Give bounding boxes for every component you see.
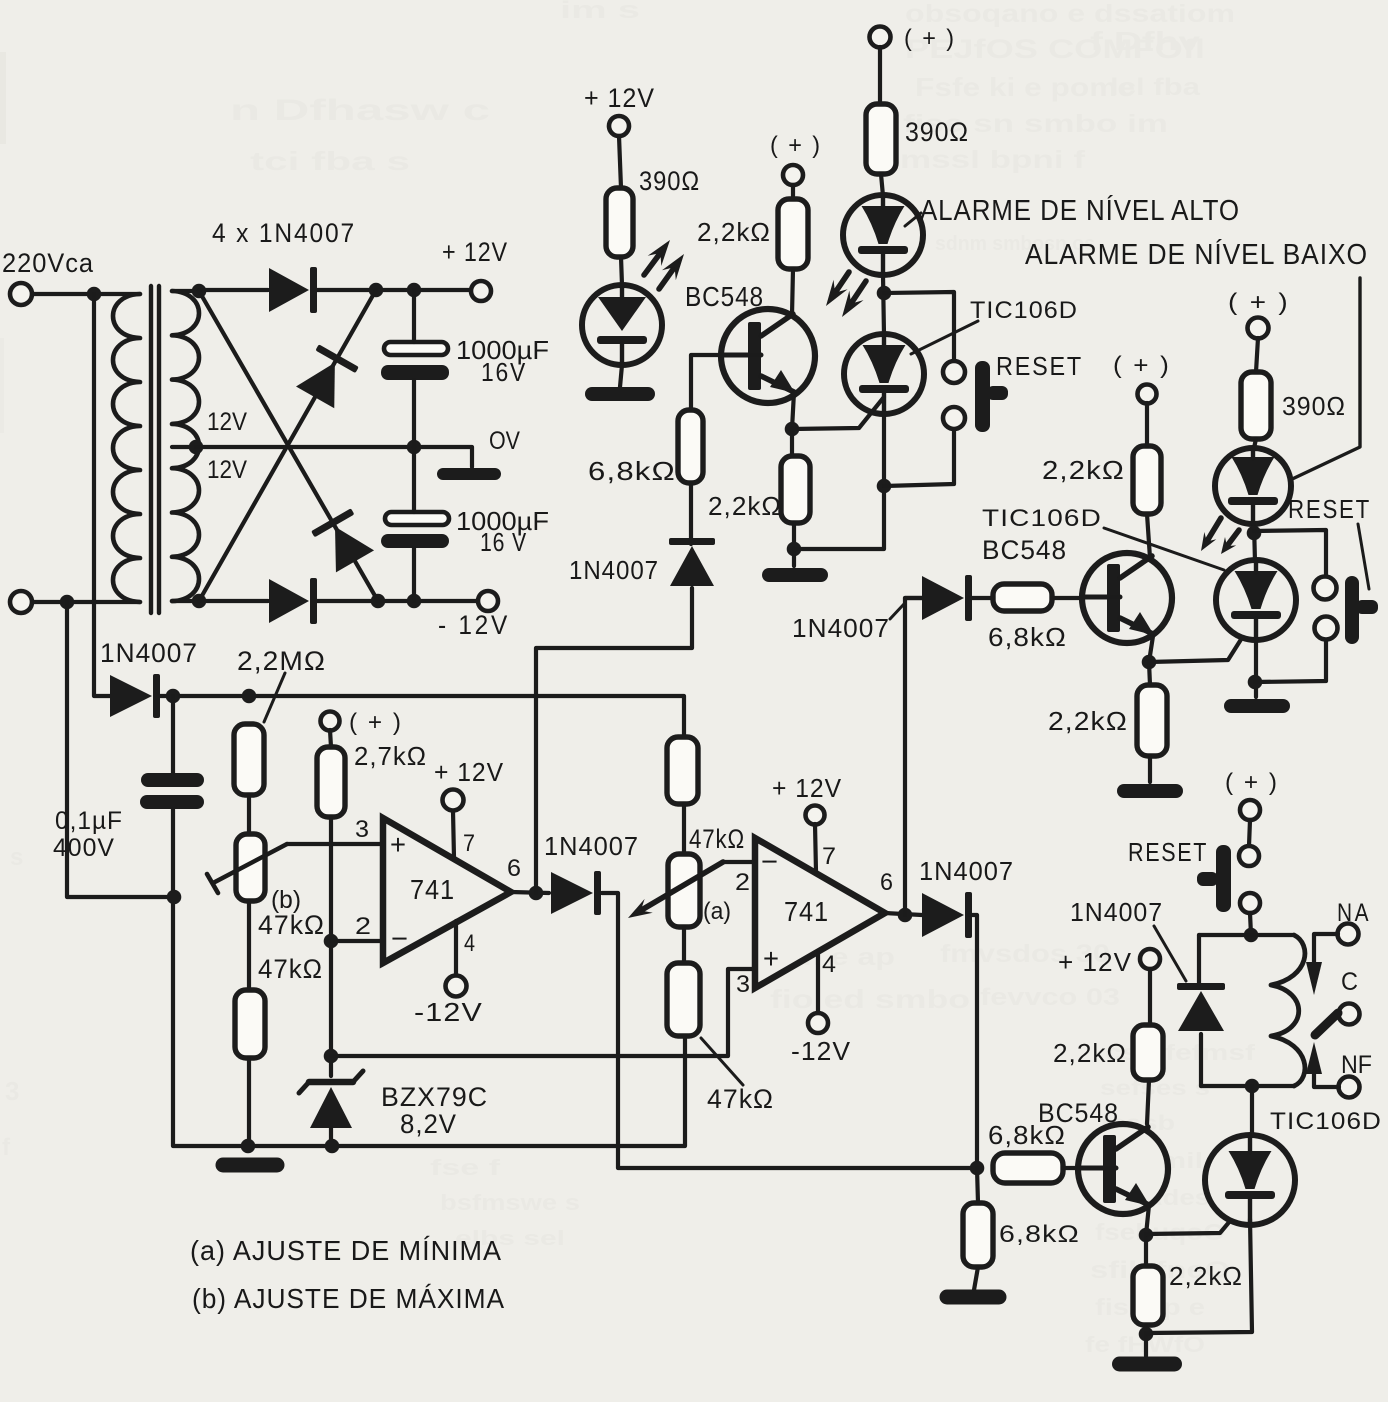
wire NF to moving contact [1306,1042,1339,1087]
LED LED2 high alarm [843,195,923,275]
wire SCR2 cathode [1254,640,1258,697]
node (+) terminal LED3 [1248,318,1269,339]
wire Z1 anode to ground rail [329,1128,333,1146]
node (+) terminal above R3 [321,712,340,731]
node relay NA terminal [1338,924,1359,945]
junction LED3 cathode node [1247,526,1262,541]
junction reference node [324,1049,339,1064]
svg-text:−: − [391,923,408,954]
ground Q2 emitter [1117,784,1183,798]
svg-text:2,2kΩ: 2,2kΩ [1169,1261,1243,1291]
node +12V terminal Q3 [1140,949,1160,969]
label Q2 BC548 [982,535,1067,565]
wire SCR2 cathode to RESET2 bottom [1255,640,1326,682]
resistor R16 6.8k Q3 base [993,1153,1063,1183]
node (+) terminal Q1 collector [783,165,803,185]
svg-text:mssl bpni f: mssl bpni f [900,146,1086,174]
node 220Vca input terminal top [10,283,32,305]
wire R2 to ground rail [247,1058,251,1146]
svg-text:12V: 12V [207,408,247,436]
svg-text:3: 3 [736,971,750,998]
wire R1 label leader [264,673,285,722]
label R2 47k [258,954,323,984]
svg-text:BC548: BC548 [1038,1098,1119,1128]
label (a) [703,898,731,925]
wire RESET3 bottom to relay rail [1250,913,1251,935]
svg-text:6: 6 [880,869,893,896]
svg-text:+ 12V: + 12V [1058,947,1132,977]
label legend b [192,1283,505,1314]
label R8 6,8k [588,456,676,486]
label U2 -12V [791,1036,851,1066]
wire SCR1 gate from Q1 emitter [792,397,884,429]
wire R1 to pot [247,795,251,834]
node (+) terminal Q2 collector [1138,385,1157,404]
label U2 +12V [772,773,842,803]
svg-text:lcl fba: lcl fba [1110,74,1201,101]
thyristor SCR3 TIC106D [1205,1135,1295,1225]
wire R15 to ground [974,1267,978,1290]
node +12V terminal LED1 [609,116,629,136]
wire +12V rail [199,288,471,292]
label U2 plus input [763,943,779,974]
wire R3 top lead [330,730,331,747]
wire R13 to ground [1148,756,1152,782]
thyristor SCR2 TIC106D [1216,560,1296,640]
wire Q3 emitter node to R18 [1144,1235,1148,1266]
label Z1 BZX79C [381,1082,488,1112]
relay C moving arm [1315,1013,1338,1035]
svg-text:-12V: -12V [414,997,483,1027]
svg-text:im s: im s [560,0,640,24]
label R7 2,2k [697,217,771,247]
junction ground rail at R2 [241,1139,256,1154]
switch RESET1 actuator [975,361,1008,432]
node U2 +12V terminal [806,806,825,825]
switch RESET3 top contact [1239,846,1259,866]
svg-text:( + ): ( + ) [770,132,822,159]
resistor R8 6.8k Q1 base [678,410,703,483]
svg-text:2: 2 [355,913,371,940]
svg-text:1N4007: 1N4007 [544,831,639,861]
wire R18 to ground node [1144,1325,1148,1334]
junction 0V rail [407,440,422,455]
junction secondary bottom [192,594,207,609]
wire R7 to Q1 collector [792,269,793,315]
label SCR3 TIC106D [1270,1108,1382,1135]
label R5 47k leader [701,1038,743,1085]
resistor R3 2.7k [317,747,345,817]
label R12 2,2k [1042,455,1125,485]
svg-text:390Ω: 390Ω [905,117,969,147]
op-amp U2 741 triangle [755,838,885,988]
node relay NF terminal [1339,1077,1360,1098]
wire U1 pin7 [453,811,454,858]
junction SCR2 cathode node [1248,675,1263,690]
svg-text:csoifefmsf: csoifefmsf [1105,1040,1256,1065]
transformer T1 core [151,286,159,613]
junction +12V rail a [369,283,384,298]
wire LED1 from +12V [619,136,621,188]
ground Q3 emitter [1112,1357,1182,1372]
LED3 light rays [1201,518,1239,554]
node (+) terminal relay [1240,800,1260,820]
svg-text:47kΩ: 47kΩ [258,954,323,984]
svg-text:2,2kΩ: 2,2kΩ [708,491,782,521]
junction LED2 cathode node [877,286,892,301]
label U2 pin7 [822,843,836,870]
svg-text:s: s [10,844,23,871]
svg-text:6,8kΩ: 6,8kΩ [988,622,1067,652]
resistor R12 2.2k Q2 collector [1133,446,1161,514]
wire ALTO label leader [905,213,921,226]
label R17 2,2k [1053,1038,1127,1068]
label (+) LED2 [904,25,956,52]
svg-text:8,2V: 8,2V [400,1109,457,1139]
svg-text:2,2kΩ: 2,2kΩ [1042,455,1125,485]
label Z1 8,2V [400,1109,457,1139]
label D7 1N4007 [919,856,1014,886]
wire (+) to R12 [1145,403,1149,446]
wire ground node stub [792,549,796,566]
capacitor C2 1000uF lower plate [381,534,449,548]
svg-text:6: 6 [507,855,521,882]
wire 0V rail [196,447,472,467]
svg-text:(b) AJUSTE DE MÁXIMA: (b) AJUSTE DE MÁXIMA [192,1283,505,1314]
junction R18 ground node [1139,1327,1154,1342]
junction Q1 emitter node [785,422,800,437]
label U1 pin2 [355,913,371,940]
label C2 16V [480,527,527,557]
wire R9 to ground node [792,523,796,549]
wire R4 to pot-a [682,804,686,854]
node +12V output terminal [471,281,491,301]
label R10 390 [905,117,969,147]
wire +12V to R17 [1148,969,1152,1025]
wire R3 to zener node [329,817,333,1076]
svg-text:741: 741 [784,896,829,927]
svg-text:2,2kΩ: 2,2kΩ [697,217,771,247]
switch RESET2 actuator [1345,576,1378,644]
junction secondary center tap [189,440,204,455]
svg-text:( + ): ( + ) [1228,289,1290,316]
label U1 -12V [414,997,483,1027]
resistor R4 47k upper [667,737,698,804]
wire LED2 from (+) [878,47,882,104]
svg-text:0,1µF: 0,1µF [55,807,123,835]
wire D9 label leader [890,604,904,619]
wire relay bottom rail [1201,1084,1294,1088]
LED1 light rays [644,240,684,289]
ground LED1 [585,387,655,401]
wire D10 anode lead [1197,935,1201,986]
label R15 6,8k [999,1221,1080,1248]
label U2 minus input [761,846,778,877]
label (+) above R3 [349,709,403,736]
transistor Q2 BC548 [1082,553,1172,643]
junction SCR1 cathode reset node [877,479,892,494]
label U1 minus input [391,923,408,954]
label -12V output [438,610,510,640]
wire D9 anode from U2 output [905,596,922,600]
svg-text:( + ): ( + ) [349,709,403,736]
wire U1 output [511,892,549,893]
label (b) [271,886,301,914]
junction ground rail at Z1 [325,1139,340,1154]
wire op1 pin2 input [331,939,383,943]
diode D8 1N4007 vertical [669,538,715,586]
wire D10 cathode lead [1199,1034,1203,1086]
wire D9 to R11 [969,596,993,600]
label (+) relay [1225,769,1279,796]
wire R14 to LED3 [1254,439,1256,448]
label U2 pin6 [880,869,893,896]
junction relay rail top [1244,928,1259,943]
label R16 6,8k [988,1120,1066,1150]
label R11 6,8k [988,622,1067,652]
svg-text:( + ): ( + ) [904,25,956,52]
transistor Q1 BC548 [721,309,815,403]
switch RESET2 bottom contact [1315,617,1338,640]
label OV [489,427,520,455]
switch RESET2 top contact [1314,577,1337,600]
wire pot-b wiper [207,844,287,893]
label Q1 BC548 [685,281,764,312]
wire bridge diagonal secondary-bottom to +12V [199,290,376,601]
label relay C [1341,968,1358,996]
svg-text:2: 2 [735,869,750,896]
svg-text:12V: 12V [207,456,247,484]
svg-text:390Ω: 390Ω [639,166,700,196]
transistor Q3 BC548 [1078,1124,1168,1214]
wire pot-a to R5 [682,927,686,963]
wire U2 pin4 [816,952,820,1013]
wire Q3 emitter to node [1146,1205,1149,1235]
svg-text:Fsfe ki e pome: Fsfe ki e pome [915,72,1135,102]
label SCR1 TIC106D [970,297,1078,324]
svg-text:RESET: RESET [996,351,1083,381]
label R6 390 [639,166,700,196]
diode D1 bridge top 1N4007 [269,267,317,313]
resistor R17 2.2k Q3 collector [1133,1025,1163,1080]
wire SCR2 label leader [1104,528,1224,570]
diode D9 1N4007 low alarm [922,575,972,621]
label (+) LED3 [1228,289,1290,316]
wire U1 pin4 [454,921,458,975]
resistor R15 6.8k to ground [963,1203,993,1267]
switch RESET3 actuator [1197,845,1231,912]
svg-text:n Dfhasw c: n Dfhasw c [230,94,490,127]
wire U1 output up to D8 branch [536,588,692,893]
resistor R6 390 LED1 [606,188,633,257]
svg-text:16 V: 16 V [480,527,527,557]
wire U2 output [885,913,922,915]
capacitor C1 1000uF lower plate [381,365,449,380]
zener Z1 BZX79C cathode bar [299,1071,363,1093]
label (+) Q2 [1113,352,1171,379]
junction Q2 emitter node [1142,655,1157,670]
wire R11 to Q2 base [1052,596,1082,600]
resistor R10 390 LED2 [866,104,896,174]
svg-text:+: + [390,829,406,860]
svg-text:BC548: BC548 [982,535,1067,565]
junction sense rail at capacitor [166,689,181,704]
wire bottom input down to capacitor bottom node [67,602,167,897]
label U1 pin4 [464,930,475,957]
junction top input [87,287,102,302]
wire Q2 emitter node to R13 [1149,662,1150,685]
svg-text:( + ): ( + ) [1225,769,1279,796]
svg-text:1N4007: 1N4007 [792,613,890,643]
label pot-b 47k [258,910,325,940]
label U1 plus input [390,829,406,860]
svg-text:6,8kΩ: 6,8kΩ [588,456,676,486]
label C1 16V [481,357,527,387]
svg-text:+ 12V: + 12V [442,237,508,267]
svg-text:4 x 1N4007: 4 x 1N4007 [212,218,356,248]
junction U2 output node [898,908,913,923]
svg-text:6,8kΩ: 6,8kΩ [999,1221,1080,1248]
junction C3 node 897 [167,890,182,905]
label D9 1N4007 [792,613,890,643]
capacitor C2 1000uF upper plate [385,512,449,525]
wire SCR1 label leader [911,321,978,354]
wire top input to transformer primary [32,292,140,296]
svg-text:-12V: -12V [791,1036,851,1066]
node U2 -12V terminal [808,1013,828,1033]
svg-text:C: C [1341,968,1358,996]
wire R8 to D8 [689,483,693,544]
wire R6 to LED1 [621,257,622,285]
wire SCR2 gate from Q2 emitter [1149,622,1252,662]
wire relay top rail [1199,933,1294,937]
resistor R11 6.8k horizontal [993,584,1052,611]
wire Q1 emitter to node [792,392,794,429]
svg-text:2,2kΩ: 2,2kΩ [1048,706,1128,736]
svg-text:fse f: fse f [430,1155,501,1180]
svg-text:4: 4 [464,930,475,957]
svg-text:+ 12V: + 12V [584,83,655,113]
resistor R14 390 LED3 [1241,372,1271,439]
label ALARME DE NIVEL ALTO [920,194,1240,227]
wire LED1 to ground [620,365,622,387]
svg-text:TIC106D: TIC106D [982,505,1102,532]
wire C3 bottom lead to ground rail [173,809,685,1146]
label relay NF [1341,1051,1372,1079]
svg-text:( + ): ( + ) [1113,352,1171,379]
junction Q3 emitter node [1139,1228,1154,1243]
wire secondary top tap [172,289,199,293]
svg-text:RESET: RESET [1288,494,1371,524]
svg-text:741: 741 [410,874,455,905]
svg-text:fio ed smbo: fio ed smbo [770,984,970,1014]
wire C2 leads [412,447,416,601]
label ALARME DE NIVEL BAIXO [1025,238,1368,271]
node (+) terminal LED2 [870,27,891,48]
label C1 1000uF [456,335,549,365]
svg-text:2,2MΩ: 2,2MΩ [237,646,326,676]
label R13 2,2k [1048,706,1128,736]
svg-text:(a) AJUSTE DE MÍNIMA: (a) AJUSTE DE MÍNIMA [190,1235,502,1266]
label D10 1N4007 [1070,897,1163,927]
label U2 741 [784,896,829,927]
junction U1 output node [529,886,544,901]
thyristor SCR1 TIC106D [844,334,924,414]
diode D2 bridge diagonal upper 1N4007 [295,344,359,408]
svg-text:1N4007: 1N4007 [1070,897,1163,927]
wire LED2 to SCR1 [883,275,884,335]
svg-text:TIC106D: TIC106D [970,297,1078,324]
junction +12V rail b [407,283,422,298]
svg-text:1N4007: 1N4007 [919,856,1014,886]
svg-text:- 12V: - 12V [438,610,510,640]
svg-text:7: 7 [822,843,836,870]
svg-text:47kΩ: 47kΩ [689,824,745,854]
label R14 390 [1282,391,1346,421]
LED LED1 power [582,285,662,365]
diode D3 bridge diagonal lower 1N4007 [311,508,375,573]
ground SCR2 [1224,699,1290,713]
svg-text:TIC106D: TIC106D [1270,1108,1382,1135]
wire secondary bottom tap [172,599,199,603]
svg-text:f: f [2,1134,11,1161]
label C2 1000uF [456,506,549,536]
svg-text:RESET: RESET [1128,837,1208,867]
wire pot-b to R2 [247,901,251,990]
switch RESET3 bottom contact [1240,893,1260,913]
label U1 pin7 [463,830,475,857]
ground bottom-left rail [216,1158,285,1173]
label RESET2 [1288,494,1371,524]
resistor R7 2.2k Q1 collector [778,199,808,269]
svg-text:ALARME DE NÍVEL ALTO: ALARME DE NÍVEL ALTO [920,194,1240,227]
label R4 47k [689,824,745,854]
ground Q1 emitter [762,568,828,582]
wire Q1 base [691,355,721,410]
wire R16 to Q3 base [1063,1166,1078,1170]
svg-text:tci fba s: tci fba s [250,146,410,176]
wire Q1 emitter node to R9 [790,429,794,456]
label R1 2,2M [237,646,326,676]
junction secondary top [192,284,207,299]
svg-text:47kΩ: 47kΩ [258,910,325,940]
ground 0V rail [437,468,501,480]
junction bottom input [60,595,75,610]
label D8 1N4007 [569,555,659,585]
resistor R1 2.2M [234,724,264,795]
potentiometer (b) 47k body [236,834,265,901]
svg-text:3: 3 [5,1076,19,1106]
svg-text:3: 3 [355,816,369,843]
wire bottom input to transformer primary [32,600,140,604]
wire ground node stub Q3 [1144,1334,1148,1356]
label U2 pin4 [822,951,836,978]
svg-text:BC548: BC548 [685,281,764,312]
transformer T1 primary winding [113,294,140,602]
label T1 secondary 12V upper [207,408,247,436]
svg-text:1N4007: 1N4007 [569,555,659,585]
transformer T1 secondary winding [172,291,199,601]
wire SCR3 cathode [1146,1219,1252,1333]
node relay C terminal [1339,1004,1360,1025]
wire (+) to R14 [1256,338,1258,372]
label 4 x 1N4007 [212,218,356,248]
svg-text:ALARME DE NÍVEL BAIXO: ALARME DE NÍVEL BAIXO [1025,238,1368,271]
wire R17 to Q3 collector [1147,1080,1149,1124]
wire D6 to OR node [602,893,970,1168]
svg-text:+ 12V: + 12V [434,757,504,787]
diode D10 1N4007 flyback [1177,983,1225,1031]
